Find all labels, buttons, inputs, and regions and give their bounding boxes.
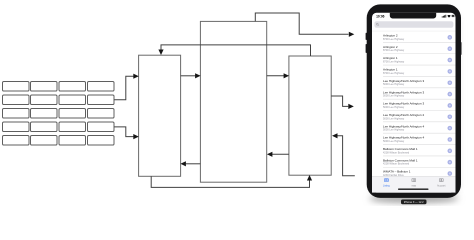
arrowhead B to phone (349, 32, 355, 37)
row 6 Lee Highway/North Arlington 3 (383, 90, 456, 99)
row 4 Arlington 1 (383, 68, 456, 77)
arrowhead into C right (332, 133, 338, 138)
arrowhead C to B (267, 152, 273, 157)
arrowhead grid to A lower (133, 134, 139, 139)
svg-text:8700 Lee Highway: 8700 Lee Highway (383, 37, 405, 41)
arrowhead grid to A upper (133, 74, 139, 79)
wire A to B (181, 75, 196, 77)
wire A bottom to C bottom (151, 176, 309, 187)
svg-text:5000 Lee Highway: 5000 Lee Highway (383, 94, 405, 98)
home indicator (398, 189, 429, 190)
wire B to C (267, 75, 284, 77)
process box B (200, 21, 266, 182)
status bar signal bars (442, 15, 446, 18)
svg-text:Map: Map (412, 186, 417, 188)
svg-text:5000 Lee Highway: 5000 Lee Highway (383, 139, 405, 143)
phone side button left mute (366, 33, 367, 40)
grid row 3 (3, 109, 30, 119)
svg-text:Account: Account (437, 185, 446, 188)
wire C right to phone (331, 96, 348, 106)
tab listing icon (385, 179, 389, 182)
search bar (374, 21, 453, 28)
simulator label pill (401, 200, 427, 205)
svg-text:10:06: 10:06 (376, 15, 385, 19)
list top separator (372, 30, 456, 32)
wire C top to A top (161, 45, 311, 56)
phone frame (367, 4, 461, 198)
row 8 Lee Highway/North Arlington 2 (383, 113, 456, 122)
row 10 Lee Highway/North Arlington 4 (383, 136, 456, 145)
svg-text:iPhone X — 12.2: iPhone X — 12.2 (404, 200, 424, 204)
wire C to B return (272, 153, 289, 155)
search magnifier icon (376, 23, 378, 25)
row 12 Ballston Commons Mall 1 (383, 158, 456, 167)
arrowhead into A top (158, 50, 163, 56)
phone drop shadow (369, 8, 460, 200)
tab bar (372, 176, 456, 192)
svg-text:Listing: Listing (383, 185, 390, 188)
phone notch (390, 13, 436, 19)
svg-text:8700 Lee Highway: 8700 Lee Highway (383, 71, 405, 75)
tab map icon (412, 179, 416, 182)
svg-text:8700 Lee Highway: 8700 Lee Highway (383, 48, 405, 52)
svg-text:4238 Wilson Boulevard: 4238 Wilson Boulevard (383, 150, 410, 154)
wire B to A return (186, 163, 201, 165)
data grid: 4x5 small boxes (3, 82, 115, 146)
row 1 Arlington 2 (383, 34, 456, 43)
tab account icon (439, 179, 443, 182)
status bar time (376, 15, 385, 19)
grid row 2 (3, 95, 30, 105)
arrowhead B to A (180, 161, 186, 166)
wire B top to phone (255, 13, 348, 34)
svg-text:5000 Lee Highway: 5000 Lee Highway (383, 128, 405, 132)
phone side button left volume (366, 44, 367, 53)
arrowhead into C bottom (307, 175, 312, 181)
row 11 Ballston Commons Mall 1 (383, 147, 456, 156)
svg-text:4238 Wilson Boulevard: 4238 Wilson Boulevard (383, 162, 410, 166)
process box C (289, 56, 331, 175)
arrowhead B to C (284, 73, 290, 78)
svg-text:5000 Lee Highway: 5000 Lee Highway (383, 82, 405, 86)
svg-text:8700 Lee Highway: 8700 Lee Highway (383, 60, 405, 64)
grid row 5 (3, 136, 30, 146)
row 2 Arlington 2 (383, 45, 456, 54)
svg-text:5000 Lee Highway: 5000 Lee Highway (383, 116, 405, 120)
list rows (372, 31, 456, 177)
process box A (139, 55, 181, 176)
row 13 WMATA – Ballston 1 (383, 170, 452, 177)
grid row 4 (3, 122, 30, 132)
wire grid row4 to A (114, 127, 133, 137)
wire grid row2 to A (114, 76, 133, 100)
arrowhead C to phone (348, 104, 354, 109)
svg-text:5000 Lee Highway: 5000 Lee Highway (383, 105, 405, 109)
row 3 Arlington 1 (383, 56, 456, 65)
status bar wifi (447, 15, 450, 18)
phone side button right power (460, 42, 461, 55)
grid row 1 (3, 82, 30, 92)
row 5 Lee Highway/North Arlington 3 (383, 79, 456, 88)
row 7 Lee Highway/North Arlington 3 (383, 102, 456, 111)
wire phone side to C right (338, 136, 355, 176)
arrowhead A to B (195, 73, 201, 78)
row 9 Lee Highway/North Arlington 4 (383, 124, 456, 133)
phone screen (372, 13, 456, 193)
status bar battery (452, 15, 455, 17)
